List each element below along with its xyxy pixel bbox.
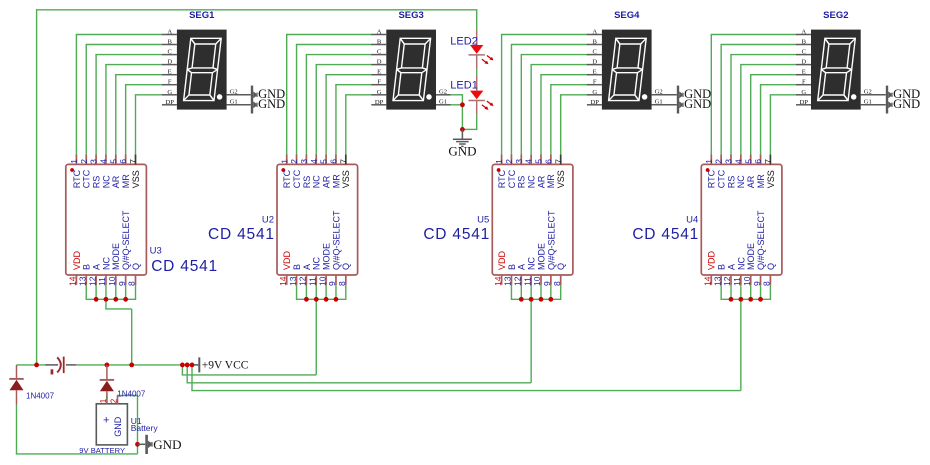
svg-text:MODE: MODE (322, 243, 332, 270)
wire ground run up to GND node (137, 396, 139, 454)
svg-text:B: B (292, 264, 302, 270)
svg-text:6: 6 (543, 159, 553, 164)
junction dot U2 bus pin 11 (314, 297, 319, 302)
IC U4 CD 4541 (632, 155, 782, 286)
wire U5 pin 4 to SEG4 segment D (530, 65, 532, 156)
capacitor polarized C1 (46, 357, 77, 375)
svg-text:RTC: RTC (282, 169, 292, 188)
svg-text:5: 5 (108, 159, 118, 164)
LED LED1 (450, 76, 493, 115)
svg-text:Q: Q (556, 263, 566, 270)
svg-text:F: F (802, 79, 806, 86)
wire U4 pin 4 to SEG2 segment D (740, 65, 742, 156)
svg-text:+9V VCC: +9V VCC (202, 360, 249, 372)
svg-text:9: 9 (327, 281, 337, 286)
IC U2 CD 4541 (208, 155, 358, 286)
wire U5 pin 1 to SEG4 segment A (501, 35, 503, 156)
wire U3 pin 1 to SEG1 segment A (75, 35, 77, 156)
IC U3 CD 4541 (66, 155, 218, 286)
svg-text:14: 14 (703, 276, 713, 286)
svg-text:+: + (103, 415, 109, 427)
svg-text:G2: G2 (230, 88, 238, 95)
junction dot U2 bus pin 12 (304, 297, 309, 302)
wire U5 bottom bus (510, 284, 512, 299)
7-segment display SEG3 (371, 29, 436, 110)
svg-text:1N4007: 1N4007 (117, 389, 146, 398)
diode D2 1N4007 (100, 365, 146, 399)
svg-text:4: 4 (309, 159, 319, 164)
wire U2 pin 2 to SEG3 segment B (296, 45, 298, 156)
svg-text:5: 5 (743, 159, 753, 164)
svg-text:8: 8 (127, 281, 137, 286)
svg-text:DP: DP (165, 99, 174, 106)
svg-text:CTC: CTC (82, 169, 92, 188)
svg-text:A: A (92, 264, 102, 270)
svg-text:CTC: CTC (717, 169, 727, 188)
wire U4 pin 1 to SEG2 segment A (710, 35, 712, 156)
svg-text:7: 7 (128, 159, 138, 164)
svg-text:1: 1 (704, 159, 714, 164)
junction dot on VCC rail at left vertical (34, 363, 39, 368)
svg-text:VDD: VDD (707, 250, 717, 270)
svg-text:9V BATTERY: 9V BATTERY (79, 446, 125, 455)
svg-text:U2: U2 (262, 214, 274, 225)
svg-text:CD 4541: CD 4541 (151, 258, 218, 275)
battery U1 9V (79, 396, 158, 455)
svg-text:VSS: VSS (341, 170, 351, 188)
svg-text:3: 3 (514, 159, 524, 164)
svg-text:DP: DP (590, 99, 599, 106)
ground earth symbol below LEDs (448, 129, 476, 158)
wire U4 pin 2 to SEG2 segment B (720, 45, 722, 156)
IC U5 CD 4541 (423, 155, 573, 286)
7-segment display SEG4 (587, 29, 652, 110)
wire G1 lead to LED node (450, 104, 462, 106)
svg-text:Q/#Q-SELECT: Q/#Q-SELECT (546, 210, 556, 270)
svg-text:U4: U4 (686, 214, 698, 225)
7-segment display SEG2 (796, 29, 861, 110)
svg-text:D: D (592, 59, 597, 66)
junction dot U5 bus pin 10 (539, 297, 544, 302)
svg-text:VSS: VSS (131, 170, 141, 188)
svg-text:6: 6 (118, 159, 128, 164)
wire left vertical from top rail to VCC rail (36, 9, 38, 365)
wire U2 pin 7 to SEG3 segment G (345, 95, 347, 156)
junction dot U2 bus pin 10 (324, 297, 329, 302)
ground terminal GND pair at SEG2 (886, 86, 920, 114)
junction dot VCC feeder 3 (190, 363, 195, 368)
svg-text:7: 7 (763, 159, 773, 164)
power terminal +9V VCC (194, 357, 249, 372)
svg-text:G: G (801, 89, 806, 96)
svg-text:B: B (167, 39, 172, 46)
wire U4 bottom bus (720, 284, 722, 299)
svg-text:5: 5 (319, 159, 329, 164)
svg-text:F: F (593, 79, 597, 86)
svg-text:5: 5 (534, 159, 544, 164)
junction dot U5 bus pin 11 (529, 297, 534, 302)
svg-text:D: D (167, 59, 172, 66)
wire VCC feeder to U4 (191, 365, 193, 391)
svg-text:GND: GND (113, 416, 123, 437)
svg-text:C: C (802, 49, 807, 56)
svg-text:G: G (167, 89, 172, 96)
svg-text:SEG1: SEG1 (189, 10, 215, 21)
wire bottom ground run (16, 453, 138, 455)
wire U3 pin 5 to SEG1 segment E (115, 75, 117, 156)
svg-text:MODE: MODE (536, 243, 546, 270)
svg-text:MR: MR (756, 174, 766, 188)
junction dot U3 bus pin 9 (123, 297, 128, 302)
svg-text:NC: NC (527, 175, 537, 188)
svg-text:A: A (517, 264, 527, 270)
wire U2 bottom bus (296, 284, 298, 299)
svg-text:11: 11 (522, 277, 532, 286)
svg-text:8: 8 (552, 281, 562, 286)
svg-text:RS: RS (92, 176, 102, 189)
svg-text:NC: NC (312, 257, 322, 270)
svg-text:SEG2: SEG2 (823, 10, 848, 21)
svg-text:GND: GND (258, 97, 285, 111)
svg-text:14: 14 (68, 276, 78, 286)
svg-text:G1: G1 (439, 98, 447, 105)
wire U5 pin 5 to SEG4 segment E (540, 75, 542, 156)
svg-text:3: 3 (299, 159, 309, 164)
svg-text:B: B (592, 39, 597, 46)
svg-text:13: 13 (77, 276, 87, 286)
svg-text:U3: U3 (150, 246, 162, 257)
svg-text:1: 1 (279, 159, 289, 164)
svg-text:LED1: LED1 (450, 80, 478, 92)
svg-text:G2: G2 (864, 88, 872, 95)
svg-text:A: A (592, 29, 597, 36)
svg-text:10: 10 (742, 276, 752, 286)
svg-text:CD 4541: CD 4541 (632, 226, 699, 243)
svg-text:14: 14 (278, 276, 288, 286)
wire LED1 cathode down and left to G1 node (476, 114, 478, 129)
svg-text:GND: GND (893, 97, 920, 111)
junction dot U3 bus pin 10 (113, 297, 118, 302)
svg-text:G1: G1 (864, 98, 872, 105)
ground terminal GND pair at SEG4 (677, 86, 711, 114)
svg-text:MR: MR (546, 174, 556, 188)
ground terminal GND at battery (138, 435, 182, 454)
svg-text:NC: NC (101, 257, 111, 270)
wire U3 pin 7 to SEG1 segment G (135, 95, 137, 156)
wire U3 pin 6 to SEG1 segment F (125, 85, 127, 156)
junction dot U4 bus pin 10 (748, 297, 753, 302)
svg-text:G: G (592, 89, 597, 96)
wire U2 pin 1 to SEG3 segment A (286, 35, 288, 156)
svg-text:AR: AR (322, 175, 332, 188)
svg-text:CD 4541: CD 4541 (423, 226, 490, 243)
svg-text:6: 6 (329, 159, 339, 164)
svg-text:AR: AR (746, 175, 756, 188)
SEG4 common pins G2 G1 (652, 88, 677, 105)
svg-text:E: E (377, 69, 381, 76)
svg-text:VSS: VSS (556, 170, 566, 188)
svg-text:2: 2 (79, 159, 89, 164)
svg-text:GND: GND (448, 143, 476, 158)
svg-text:VDD: VDD (497, 250, 507, 270)
svg-text:10: 10 (532, 276, 542, 286)
svg-text:E: E (168, 69, 172, 76)
svg-text:F: F (377, 79, 381, 86)
wire U2 pin 6 to SEG3 segment F (335, 85, 337, 156)
svg-text:B: B (717, 264, 727, 270)
svg-text:CTC: CTC (507, 169, 517, 188)
svg-text:7: 7 (553, 159, 563, 164)
svg-text:RTC: RTC (72, 169, 82, 188)
svg-text:G: G (377, 89, 382, 96)
svg-text:Q/#Q-SELECT: Q/#Q-SELECT (331, 210, 341, 270)
svg-text:4: 4 (99, 159, 109, 164)
junction dot LED node at ground (460, 127, 465, 132)
junction dot LED node at G1 (460, 102, 465, 107)
7-segment display SEG1 (162, 29, 227, 110)
svg-text:1: 1 (494, 159, 504, 164)
wire U3 pin 4 to SEG1 segment D (105, 65, 107, 156)
svg-text:MODE: MODE (746, 243, 756, 270)
svg-text:2: 2 (504, 159, 514, 164)
svg-text:11: 11 (97, 277, 107, 286)
svg-text:C: C (592, 49, 597, 56)
svg-text:13: 13 (503, 276, 513, 286)
wire U3 bottom bus (85, 284, 87, 299)
svg-text:RS: RS (517, 176, 527, 189)
wire LED column from top rail (476, 9, 478, 30)
svg-text:4: 4 (524, 159, 534, 164)
junction dot battery ground (135, 442, 140, 447)
svg-text:1N4007: 1N4007 (26, 392, 55, 401)
svg-text:Q/#Q-SELECT: Q/#Q-SELECT (756, 210, 766, 270)
svg-text:A: A (167, 29, 172, 36)
wire U3 pin 3 to SEG1 segment C (95, 55, 97, 156)
junction dot U4 bus pin 11 (738, 297, 743, 302)
wire U5 pin 2 to SEG4 segment B (510, 45, 512, 156)
svg-text:GND: GND (684, 97, 711, 111)
svg-text:B: B (507, 264, 517, 270)
wire U4 pin 3 to SEG2 segment C (730, 55, 732, 156)
svg-text:VDD: VDD (282, 250, 292, 270)
wire VCC feeder to U5 (186, 365, 188, 383)
svg-text:10: 10 (317, 276, 327, 286)
svg-text:B: B (802, 39, 807, 46)
wire VCC rail (17, 364, 48, 366)
svg-text:8: 8 (337, 281, 347, 286)
wire diode D1 anode to bottom ground run (16, 405, 18, 454)
svg-text:NC: NC (101, 175, 111, 188)
svg-text:CD 4541: CD 4541 (208, 226, 275, 243)
svg-text:10: 10 (107, 276, 117, 286)
svg-text:F: F (168, 79, 172, 86)
svg-text:4: 4 (733, 159, 743, 164)
LED LED2 (450, 30, 493, 69)
svg-text:RS: RS (726, 176, 736, 189)
svg-text:G1: G1 (655, 98, 663, 105)
svg-text:12: 12 (722, 276, 732, 286)
svg-text:2: 2 (714, 159, 724, 164)
junction dot VCC feeder 2 (185, 363, 190, 368)
svg-text:A: A (377, 29, 382, 36)
svg-text:Q: Q (131, 263, 141, 270)
svg-text:Battery: Battery (131, 423, 159, 433)
SEG3 common pins G2 G1 (436, 88, 451, 105)
junction dot U4 bus pin 12 (729, 297, 734, 302)
svg-text:MODE: MODE (111, 243, 121, 270)
svg-text:RTC: RTC (707, 169, 717, 188)
junction dot U4 bus pin 9 (758, 297, 763, 302)
wire top rail from left corner to LED column (37, 9, 477, 11)
wire G2 lead to LED node (450, 94, 462, 96)
wire U5 pin 7 to SEG4 segment G (560, 95, 562, 156)
svg-text:RTC: RTC (497, 169, 507, 188)
svg-text:D: D (801, 59, 806, 66)
junction dot U2 bus pin 9 (334, 297, 339, 302)
svg-text:8: 8 (762, 281, 772, 286)
svg-text:E: E (802, 69, 806, 76)
wire U3 bus to VCC rail (jog) (105, 299, 107, 309)
wire U5 pin 3 to SEG4 segment C (520, 55, 522, 156)
svg-text:1: 1 (99, 398, 108, 403)
junction dot VCC feeder 1 (180, 363, 185, 368)
junction dot U5 bus pin 9 (548, 297, 553, 302)
svg-text:C: C (167, 49, 172, 56)
svg-text:GND: GND (153, 437, 181, 452)
svg-text:DP: DP (800, 99, 809, 106)
SEG1 common pins G2 G1 (227, 88, 251, 105)
wire U3 pin 2 to SEG1 segment B (85, 45, 87, 156)
svg-text:9: 9 (542, 281, 552, 286)
wire GND node to battery pin 2 (117, 395, 138, 397)
svg-text:AR: AR (111, 175, 121, 188)
wire U4 pin 6 to SEG2 segment F (760, 85, 762, 156)
svg-text:D: D (377, 59, 382, 66)
wire U2 pin 3 to SEG3 segment C (305, 55, 307, 156)
svg-text:SEG4: SEG4 (614, 10, 640, 21)
svg-text:13: 13 (288, 276, 298, 286)
svg-text:E: E (593, 69, 597, 76)
svg-text:NC: NC (312, 175, 322, 188)
svg-text:2: 2 (110, 398, 119, 403)
svg-text:NC: NC (736, 175, 746, 188)
svg-text:14: 14 (493, 276, 503, 286)
svg-text:VSS: VSS (766, 170, 776, 188)
svg-text:C: C (377, 49, 382, 56)
diode D1 1N4007 (9, 365, 54, 405)
junction dot U3 bus pin 11 (104, 297, 109, 302)
svg-text:U5: U5 (477, 214, 489, 225)
junction dot on VCC rail at diode D2 (105, 363, 110, 368)
svg-text:Q: Q (341, 263, 351, 270)
wire VCC feeder to U2 (181, 365, 183, 375)
svg-text:3: 3 (724, 159, 734, 164)
svg-text:NC: NC (736, 257, 746, 270)
svg-text:G2: G2 (655, 88, 663, 95)
svg-text:Q/#Q-SELECT: Q/#Q-SELECT (121, 210, 131, 270)
svg-text:CTC: CTC (292, 169, 302, 188)
svg-text:A: A (726, 264, 736, 270)
svg-text:11: 11 (307, 277, 317, 286)
svg-text:Q: Q (766, 263, 776, 270)
svg-text:RS: RS (302, 176, 312, 189)
svg-text:12: 12 (513, 276, 523, 286)
svg-text:DP: DP (375, 99, 384, 106)
SEG2 common pins G2 G1 (861, 88, 886, 105)
wire U2 pin 5 to SEG3 segment E (325, 75, 327, 156)
svg-text:MR: MR (331, 174, 341, 188)
svg-text:12: 12 (298, 276, 308, 286)
junction dot U5 bus pin 12 (519, 297, 524, 302)
svg-text:AR: AR (536, 175, 546, 188)
svg-text:B: B (377, 39, 382, 46)
svg-text:MR: MR (121, 174, 131, 188)
junction dot on VCC rail at U3 drop (129, 363, 134, 368)
wire U5 pin 6 to SEG4 segment F (550, 85, 552, 156)
svg-text:G1: G1 (230, 98, 238, 105)
wire U4 pin 7 to SEG2 segment G (769, 95, 771, 156)
ground terminal GND pair at SEG1 (251, 86, 285, 114)
svg-text:7: 7 (338, 159, 348, 164)
wire U2 pin 4 to SEG3 segment D (315, 65, 317, 156)
svg-text:A: A (801, 29, 806, 36)
svg-text:G2: G2 (439, 88, 447, 95)
svg-text:9: 9 (117, 281, 127, 286)
wire LED node vertical (461, 94, 463, 129)
svg-text:1: 1 (69, 159, 79, 164)
svg-text:SEG3: SEG3 (398, 10, 423, 21)
svg-text:13: 13 (712, 276, 722, 286)
svg-text:A: A (302, 264, 312, 270)
svg-text:6: 6 (753, 159, 763, 164)
svg-text:9: 9 (752, 281, 762, 286)
wire U4 pin 5 to SEG2 segment E (750, 75, 752, 156)
svg-text:NC: NC (527, 257, 537, 270)
svg-text:3: 3 (89, 159, 99, 164)
svg-text:12: 12 (87, 276, 97, 286)
svg-text:11: 11 (732, 277, 742, 286)
svg-text:B: B (82, 264, 92, 270)
svg-text:VDD: VDD (72, 250, 82, 270)
svg-text:LED2: LED2 (450, 35, 478, 47)
wire between LED2 and LED1 (476, 69, 478, 76)
svg-text:2: 2 (289, 159, 299, 164)
junction dot U3 bus pin 12 (94, 297, 99, 302)
